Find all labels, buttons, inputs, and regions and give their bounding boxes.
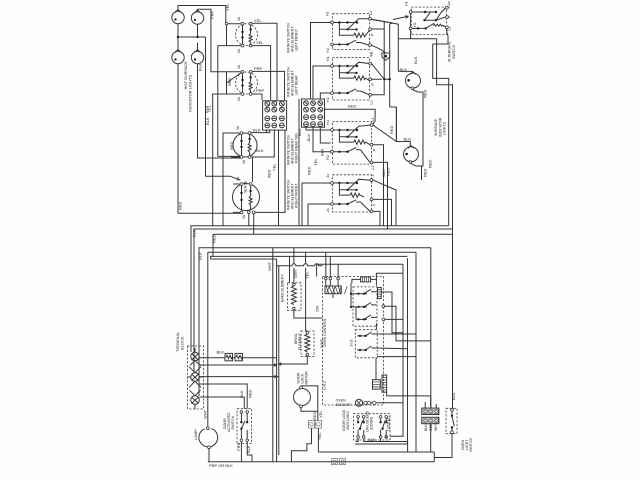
wires below alt switch	[398, 13, 448, 44]
svg-text:YEL: YEL	[254, 18, 262, 23]
wires grid A columns down to SW3/SW4	[255, 130, 285, 226]
oven light switch	[446, 392, 473, 452]
svg-text:1b: 1b	[237, 65, 241, 69]
svg-text:(DOOR): (DOOR)	[370, 417, 374, 430]
svg-text:BLK: BLK	[192, 229, 197, 237]
arrow to alternate switch	[393, 16, 409, 20]
svg-text:RED: RED	[267, 169, 272, 178]
relay output wires	[376, 292, 430, 341]
svg-text:YEL: YEL	[305, 271, 310, 279]
svg-text:BLK: BLK	[451, 392, 456, 400]
wires left box4	[302, 183, 331, 226]
svg-text:1b: 1b	[237, 17, 241, 21]
svg-text:PRP OR BLK: PRP OR BLK	[209, 463, 233, 468]
svg-text:RED: RED	[348, 104, 357, 109]
svg-text:L1a: L1a	[447, 2, 451, 8]
svg-text:PRP: PRP	[236, 442, 241, 451]
bus y234	[213, 233, 453, 235]
svg-text:RED: RED	[212, 234, 217, 243]
svg-text:SWITCH: SWITCH	[452, 44, 456, 59]
svg-text:RED: RED	[229, 141, 234, 150]
SW1 wires right	[252, 23, 277, 100]
infinite switch SW3 (right rear)	[229, 126, 264, 164]
svg-text:L2: L2	[371, 166, 375, 170]
motor pins	[308, 421, 314, 429]
svg-text:BAKE ELEMENT: BAKE ELEMENT	[280, 274, 284, 302]
svg-text:RED: RED	[428, 159, 433, 168]
svg-text:H2: H2	[326, 155, 330, 160]
wire RED grid B to box3 L1	[325, 109, 376, 125]
svg-text:1b: 1b	[236, 177, 240, 181]
svg-text:OVEN CONTROL: OVEN CONTROL	[323, 318, 327, 347]
svg-text:BLK: BLK	[198, 63, 203, 71]
bus yD	[208, 252, 416, 254]
svg-text:BLK: BLK	[205, 117, 210, 125]
bus yE	[211, 234, 408, 259]
svg-text:H2: H2	[326, 97, 330, 102]
hop line	[211, 259, 323, 266]
bolt 2	[191, 373, 200, 382]
svg-text:RIGHT FRONT: RIGHT FRONT	[295, 183, 299, 208]
infinite switch SW4 (right front)	[233, 177, 260, 219]
broil element	[294, 331, 314, 357]
svg-text:L1: L1	[369, 11, 373, 15]
svg-text:LOCKED: LOCKED	[386, 416, 390, 431]
svg-text:2b: 2b	[242, 160, 246, 164]
svg-text:WHT: WHT	[434, 422, 438, 431]
svg-text:GRY: GRY	[293, 269, 298, 278]
terminal block output wires	[199, 357, 276, 359]
svg-text:LEFT REAR: LEFT REAR	[295, 75, 299, 95]
wire oven light switch to bottom bus	[434, 434, 452, 458]
oven lamp	[193, 427, 218, 449]
SW2 wires right	[252, 71, 285, 100]
wires right of box1: L1 diag to buses	[371, 19, 398, 39]
connector grid B	[302, 99, 325, 127]
svg-text:1c: 1c	[326, 174, 330, 178]
svg-text:BLK: BLK	[246, 445, 251, 453]
svg-text:RIGHT REAR TAN: RIGHT REAR TAN	[295, 133, 299, 163]
svg-text:PRP: PRP	[256, 88, 265, 93]
svg-text:H2: H2	[326, 48, 330, 53]
svg-text:BLK: BLK	[253, 128, 261, 133]
svg-text:2: 2	[372, 204, 376, 206]
hot surface indicator light 1	[172, 10, 184, 24]
WHT long vertical	[272, 248, 274, 462]
pilot resistor	[339, 29, 369, 37]
svg-text:MOTOR: MOTOR	[304, 371, 308, 385]
svg-text:INDICATOR LIGHTS: INDICATOR LIGHTS	[187, 74, 192, 112]
wires light B	[396, 107, 421, 180]
svg-text:2b: 2b	[237, 97, 241, 101]
wires left box2	[313, 66, 331, 99]
bus yC	[199, 248, 431, 396]
svg-text:WHT: WHT	[267, 261, 272, 271]
svg-text:SWITCH: SWITCH	[231, 415, 235, 430]
wires right box3	[373, 125, 397, 229]
YEL drop	[305, 252, 307, 330]
row2 contacts	[333, 40, 368, 45]
svg-text:SENSE: SENSE	[244, 180, 248, 193]
svg-text:RED: RED	[389, 125, 394, 134]
svg-text:H1: H1	[326, 11, 330, 16]
svg-text:LIGHTS: LIGHTS	[443, 121, 447, 135]
wire BLK vertical right of grid B	[298, 99, 300, 226]
bolt 1	[191, 352, 200, 361]
WHT lamp feed	[207, 252, 209, 427]
wire junction lights row	[178, 24, 240, 180]
svg-text:YEL: YEL	[256, 40, 264, 45]
bus yB	[194, 229, 453, 408]
svg-text:LEFT FRONT: LEFT FRONT	[295, 28, 299, 51]
svg-text:LAMP: LAMP	[193, 429, 198, 440]
svg-text:RED: RED	[248, 389, 253, 398]
svg-text:BLK: BLK	[204, 105, 209, 113]
svg-text:BLK: BLK	[198, 252, 203, 260]
SW3 wires	[251, 130, 274, 157]
fuse boxes	[225, 353, 233, 360]
svg-text:2b: 2b	[237, 49, 241, 53]
svg-text:H1: H1	[405, 1, 409, 6]
oven sensor	[336, 399, 376, 408]
svg-text:RED: RED	[429, 423, 433, 431]
svg-text:RED: RED	[307, 166, 312, 175]
bottom connector strips	[373, 380, 381, 389]
svg-text:PRP: PRP	[254, 66, 263, 71]
wires H1 left box1	[311, 23, 331, 100]
connector plug P1	[382, 53, 390, 60]
svg-text:PRP: PRP	[210, 10, 215, 19]
lower right verticals	[430, 248, 432, 408]
relay box 2	[355, 330, 377, 358]
svg-text:L2: L2	[370, 101, 374, 105]
hot surface indicator light 2	[191, 10, 203, 24]
connector grid A	[263, 101, 287, 130]
svg-text:YEL: YEL	[318, 410, 323, 418]
svg-text:RED: RED	[178, 201, 183, 210]
svg-text:1b: 1b	[236, 126, 240, 130]
svg-text:BLK: BLK	[424, 424, 428, 431]
right bus verticals upper	[433, 44, 449, 226]
bake element drop GRY	[290, 248, 294, 283]
svg-text:2b: 2b	[242, 215, 246, 219]
svg-text:SENSOR: SENSOR	[336, 403, 352, 407]
wires left box3	[306, 127, 331, 152]
svg-text:BLK: BLK	[256, 148, 264, 153]
surface indicator light B	[381, 137, 428, 178]
bottom small pins	[332, 459, 338, 465]
door lock switches	[342, 409, 390, 440]
bottom bus	[208, 452, 434, 462]
svg-text:H1: H1	[326, 120, 330, 125]
svg-text:RED: RED	[312, 411, 317, 420]
svg-text:ELEMENT: ELEMENT	[298, 332, 302, 350]
svg-text:BLK: BLK	[297, 128, 302, 136]
svg-text:YEL: YEL	[317, 432, 322, 440]
relay box 1	[353, 287, 377, 326]
wire light2 top PRP down	[198, 9, 227, 72]
svg-text:H2: H2	[413, 22, 417, 27]
svg-text:L1: L1	[371, 118, 375, 122]
bake element	[280, 274, 301, 311]
svg-text:SWITCHES: SWITCHES	[346, 410, 350, 430]
bolt 3	[191, 396, 200, 405]
top connector	[325, 277, 328, 280]
row1 contacts	[333, 19, 368, 30]
infinite switch SW2 (left rear)	[205, 65, 265, 226]
svg-text:YEL: YEL	[272, 163, 277, 171]
hot surface indicator light 4	[191, 50, 203, 64]
svg-text:2c: 2c	[326, 208, 330, 212]
svg-text:YEL: YEL	[313, 158, 318, 166]
door activated switch	[223, 409, 252, 444]
svg-text:BLOCK: BLOCK	[180, 336, 185, 350]
svg-text:L2: L2	[448, 27, 452, 31]
door lock motor	[294, 371, 311, 408]
wires light A	[398, 39, 423, 107]
svg-text:3: 3	[371, 175, 375, 177]
bus y264	[317, 264, 403, 403]
svg-text:BLK: BLK	[306, 134, 311, 142]
surface indicator light A	[400, 56, 428, 98]
wires right box4	[373, 180, 396, 226]
svg-text:BLK: BLK	[217, 350, 225, 355]
svg-text:L1/L2: L1/L2	[323, 381, 327, 390]
svg-text:BLK: BLK	[319, 148, 324, 156]
svg-text:N.O.: N.O.	[350, 339, 354, 346]
svg-text:OVEN: OVEN	[336, 399, 347, 403]
svg-text:15A: 15A	[316, 305, 320, 312]
wire light1 top to SW1	[178, 6, 226, 24]
svg-text:L1: L1	[369, 53, 373, 57]
wires below lights going down	[178, 64, 240, 214]
svg-text:BLK: BLK	[413, 56, 418, 64]
svg-text:WHT: WHT	[202, 409, 207, 419]
svg-text:RED: RED	[423, 168, 428, 177]
svg-text:BLK: BLK	[404, 137, 412, 142]
svg-text:YEL: YEL	[225, 3, 230, 11]
svg-text:RED: RED	[227, 77, 232, 86]
RED BLK pin rows	[422, 396, 439, 452]
bus yA	[191, 226, 449, 352]
svg-text:H1: H1	[326, 56, 330, 61]
infinite switch SW1 (left front)	[218, 17, 265, 156]
svg-text:SWITCH: SWITCH	[469, 437, 473, 452]
wires right of box2	[372, 64, 390, 107]
hot surface indicator light 3	[172, 50, 184, 64]
svg-text:BLK: BLK	[239, 390, 244, 398]
SW4 wires	[249, 157, 254, 234]
